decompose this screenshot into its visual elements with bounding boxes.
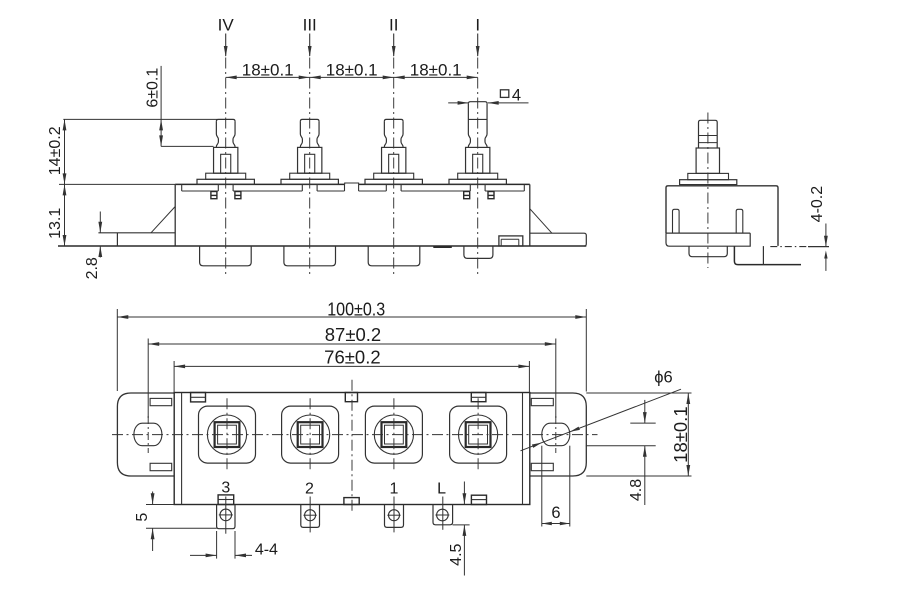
terminal 3: [217, 497, 235, 534]
dimension 4-0.2: [809, 186, 828, 271]
svg-text:18±0.1: 18±0.1: [326, 61, 378, 80]
svg-text:13.1: 13.1: [47, 208, 64, 239]
tab above terminal 3: [218, 495, 234, 505]
dimension 13.1: [47, 184, 66, 246]
label III: [303, 16, 317, 58]
svg-text:2.8: 2.8: [84, 257, 101, 279]
leader phi 6: [521, 368, 682, 451]
side view guide: [696, 148, 719, 173]
right ear hole: [542, 423, 570, 446]
svg-text:14±0.2: 14±0.2: [47, 126, 64, 175]
front view left mounting ear: [98, 233, 175, 246]
top center notch: [345, 393, 357, 402]
front view bump 1: [200, 246, 252, 266]
svg-text:III: III: [303, 16, 317, 35]
front view right bend line: [530, 209, 552, 234]
left ear slots: [150, 398, 172, 470]
side view washer: [688, 173, 729, 179]
svg-text:I: I: [475, 16, 480, 35]
station L: [450, 398, 507, 471]
svg-text:18±0.1: 18±0.1: [242, 61, 294, 80]
label IV: [218, 16, 235, 58]
button II front: [365, 58, 422, 275]
label II: [389, 16, 398, 58]
bottom view right ear: [530, 393, 587, 476]
label L: [437, 480, 446, 497]
front view left bend line: [151, 207, 175, 233]
svg-text:4.8: 4.8: [628, 479, 645, 501]
side view centerline: [707, 113, 709, 269]
dimension 6: [542, 446, 570, 527]
dimension 18±0.1 row: [226, 61, 478, 80]
side view bump: [689, 246, 727, 257]
front view body right edge: [529, 184, 531, 246]
dimension square 4: [448, 86, 528, 104]
bottom center notch: [344, 498, 359, 505]
side view slot right: [736, 209, 743, 233]
terminal L: [433, 497, 453, 530]
front view right mounting ear: [530, 233, 587, 246]
button IV front: [197, 58, 254, 275]
bottom view vertical axis: [351, 380, 353, 513]
dimension 18±0.1 vertical: [586, 393, 691, 476]
side view base flange: [680, 180, 737, 185]
station 2: [282, 398, 339, 471]
bottom view inner walls: [182, 393, 523, 505]
right hole centerline: [555, 339, 557, 454]
station 1: [365, 398, 422, 471]
front view bump 4: [464, 246, 493, 258]
label 2: [305, 480, 314, 497]
dimension 14±0.2: [47, 119, 175, 184]
front view center tab: [345, 183, 359, 184]
button I front: [449, 58, 506, 275]
left hole centerline: [147, 339, 149, 454]
svg-text:5: 5: [134, 513, 151, 522]
side view foot: [666, 233, 750, 246]
front view top recess line: [182, 184, 525, 191]
bottom tab near L: [471, 495, 486, 504]
svg-text:6±0.1: 6±0.1: [145, 68, 162, 108]
front view body left edge: [174, 184, 176, 246]
side view body: [666, 186, 778, 246]
dimension 4.8: [586, 400, 656, 505]
svg-text:18±0.1: 18±0.1: [410, 61, 462, 80]
side view cap: [699, 120, 718, 148]
dimension 87±0.2: [148, 324, 556, 346]
label 3: [221, 479, 230, 496]
bottom view body: [174, 393, 530, 505]
station 3: [199, 398, 256, 471]
svg-text:4.5: 4.5: [448, 543, 465, 565]
terminal 1: [385, 497, 404, 533]
button III front: [281, 58, 338, 275]
dimension 4.5: [448, 482, 470, 576]
terminal 2: [301, 497, 320, 533]
svg-text:87±0.2: 87±0.2: [325, 324, 381, 345]
svg-text:4: 4: [512, 86, 521, 104]
svg-text:18±0.1: 18±0.1: [670, 406, 691, 462]
front view terminal L edge line: [433, 246, 452, 248]
svg-text:4-4: 4-4: [255, 541, 278, 558]
svg-text:L: L: [437, 480, 446, 497]
dimension 6±0.1: [63, 66, 217, 146]
side view bracket: [734, 246, 801, 265]
svg-text:2: 2: [305, 480, 314, 497]
dimension 76±0.2: [174, 347, 529, 393]
left ear hole: [134, 423, 162, 446]
dimension 4-4: [190, 531, 278, 559]
svg-text:IV: IV: [218, 16, 235, 35]
top tab left: [191, 393, 206, 402]
side view slot left: [673, 209, 680, 233]
svg-text:1: 1: [390, 480, 399, 497]
dimension 100±0.3: [117, 298, 586, 391]
front view body top edge: [175, 183, 530, 185]
label I: [475, 16, 480, 58]
front view clip box: [499, 236, 523, 246]
svg-text:76±0.2: 76±0.2: [324, 347, 380, 368]
svg-text:6: 6: [551, 504, 560, 522]
svg-text:ϕ6: ϕ6: [654, 368, 672, 386]
dimension 2.8: [84, 212, 102, 280]
svg-text:3: 3: [221, 479, 230, 496]
side view seating line: [770, 246, 829, 248]
dimension 5: [134, 492, 217, 552]
front view latch hooks: [211, 192, 494, 199]
front view body bottom edge: [58, 245, 586, 247]
svg-text:4-0.2: 4-0.2: [809, 186, 826, 223]
front view bump 2: [284, 246, 336, 266]
right ear slots: [531, 398, 553, 470]
svg-text:II: II: [389, 16, 398, 35]
top tab right: [471, 393, 486, 402]
front view bump 3: [368, 246, 420, 266]
bottom view horizontal centerline: [112, 434, 598, 436]
label 1: [390, 480, 399, 497]
svg-text:100±0.3: 100±0.3: [327, 298, 385, 319]
bottom view left ear: [117, 393, 174, 476]
